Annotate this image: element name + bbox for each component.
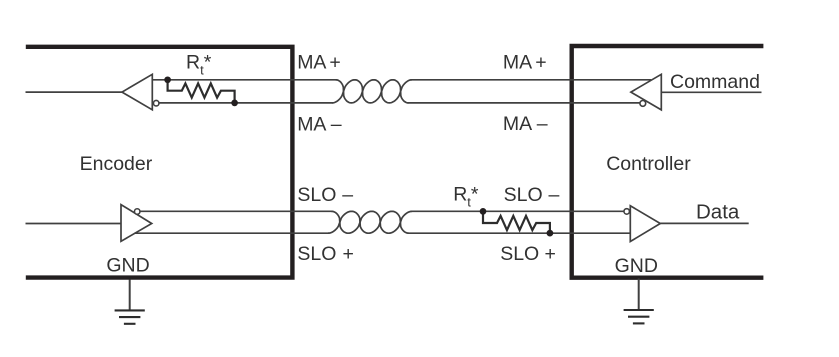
svg-text:–: – [342,184,353,206]
svg-text:Encoder: Encoder [80,153,153,175]
svg-text:GND: GND [106,255,149,277]
svg-text:SLO: SLO [500,243,539,265]
wire: SLO+ right segment [408,232,630,234]
junction dot SLO- [480,208,487,215]
wire: MA- right segment [407,102,639,104]
svg-text:SLO: SLO [297,243,336,265]
svg-text:Rt*: Rt* [186,51,212,77]
U2 inverting bubble [640,101,646,107]
svg-text:SLO: SLO [297,184,336,206]
wire: encoder driver input [26,223,122,225]
U4 inverting bubble [624,209,630,215]
op-amp U2: controller driver triangle [631,74,661,110]
twisted pair SLO wire A [331,211,412,233]
ground controller bars [624,310,654,323]
junction dot SLO+ [547,230,554,237]
wire: SLO- right segment [411,210,623,212]
svg-text:SLO: SLO [504,184,543,206]
wire: SLO+ left segment [135,232,330,234]
junction dot MA+ [164,76,171,83]
svg-text:–: – [537,113,548,135]
wire: SLO- left segment [140,210,332,212]
svg-text:MA: MA [297,113,326,135]
svg-text:+: + [545,243,556,265]
junction dot MA- [231,100,238,107]
controller box outline [572,46,764,278]
svg-text:MA: MA [503,113,532,135]
wire: MA+ left segment [152,79,336,81]
svg-text:Controller: Controller [606,153,691,175]
encoder box outline [26,47,293,278]
svg-text:MA: MA [503,52,532,74]
svg-text:–: – [331,113,342,135]
op-amp U4: controller receiver triangle [630,206,660,242]
svg-text:+: + [535,52,546,74]
svg-text:Rt*: Rt* [453,183,479,209]
U1 inverting bubble [153,100,159,106]
wire: MA- left segment [159,102,333,104]
ground controller stem [638,279,640,311]
op-amp U1: encoder receiver triangle [122,74,152,110]
svg-text:Command: Command [670,71,760,93]
wire: Data [660,222,748,224]
svg-text:+: + [329,52,340,74]
U3 inverting bubble [134,209,140,215]
svg-text:GND: GND [615,255,658,277]
wire: encoder receiver output [26,91,123,93]
wire: Command [661,91,761,93]
ground encoder bars [115,310,145,323]
twisted pair MA wire A [336,80,412,103]
svg-text:MA: MA [297,52,326,74]
svg-text:Data: Data [696,201,740,224]
wire: MA+ right segment [411,79,651,81]
resistor R_t bottom termination [483,211,550,233]
resistor R_t top termination [168,80,235,103]
twisted pair MA wire B [332,80,408,103]
svg-text:+: + [343,243,354,265]
twisted pair SLO wire B [328,211,409,233]
svg-text:–: – [549,184,560,206]
ground encoder stem [129,280,131,311]
op-amp U3: encoder driver triangle [121,205,152,242]
